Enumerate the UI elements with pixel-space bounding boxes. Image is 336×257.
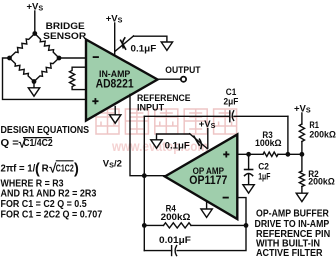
svg-text:+VS: +VS	[199, 119, 216, 130]
svg-text:2πf = 1/: 2πf = 1/	[1, 163, 36, 174]
svg-text:): )	[74, 161, 79, 177]
resistor bridge bottom-right arm	[34, 58, 59, 82]
svg-text:ACTIVE FILTER: ACTIVE FILTER	[256, 248, 323, 257]
capacitor C2 1uF	[248, 154, 250, 169]
svg-text:2μF: 2μF	[224, 96, 239, 106]
node op-amp plus input	[246, 152, 251, 157]
svg-text:Q =: Q =	[1, 138, 20, 149]
op-amp U1 in-amp AD8221	[86, 40, 158, 121]
svg-text:AD8221: AD8221	[96, 76, 134, 90]
svg-text:0.1μF: 0.1μF	[131, 43, 157, 53]
svg-text:C1/4C2: C1/4C2	[23, 138, 53, 149]
svg-text:OP1177: OP1177	[189, 173, 227, 187]
pin plus mark in-amp	[93, 100, 97, 102]
ground 0.1uF op-amp	[151, 140, 162, 148]
node ref junction	[142, 173, 147, 178]
resistor RG gain	[70, 67, 87, 89]
node C1 right	[286, 152, 291, 157]
ground bridge	[33, 82, 35, 88]
capacitor 0.01uF feedback	[171, 246, 173, 256]
ground C2	[243, 185, 254, 193]
svg-text:+VS: +VS	[27, 2, 44, 13]
svg-text:R: R	[42, 163, 49, 174]
svg-text:OUTPUT: OUTPUT	[165, 65, 200, 76]
svg-text:200kΩ: 200kΩ	[308, 176, 335, 187]
node bridge bottom	[32, 79, 37, 84]
wire bridge +Vs supply	[34, 11, 36, 34]
capacitor 0.1uF in-amp bypass	[115, 36, 167, 51]
wire op-amp +Vs supply	[207, 129, 209, 149]
resistor bridge top-left arm	[10, 34, 35, 59]
capacitor C1 2uF	[229, 111, 231, 122]
svg-text:+VS: +VS	[294, 103, 311, 114]
resistor R1 200k	[299, 124, 304, 142]
svg-text:FOR C1 = 2C2 Q = 0.707: FOR C1 = 2C2 Q = 0.707	[1, 209, 103, 220]
svg-text:FOR C1 = C2 Q = 0.5: FOR C1 = C2 Q = 0.5	[1, 199, 87, 210]
ground op-amp supply	[206, 201, 208, 209]
node output terminal	[181, 77, 186, 82]
svg-text:200kΩ: 200kΩ	[161, 212, 191, 223]
wire C1 branch vertical	[143, 116, 145, 250]
svg-text:1μF: 1μF	[258, 171, 270, 182]
svg-text:DESIGN EQUATIONS: DESIGN EQUATIONS	[1, 125, 90, 136]
node R4 right	[244, 223, 249, 228]
wire bridge right node to minus input	[59, 57, 86, 59]
pin plus mark op-amp	[224, 153, 228, 155]
ground 0.1uF in-amp	[161, 42, 172, 50]
text design equations	[1, 125, 103, 220]
svg-text:200kΩ: 200kΩ	[309, 130, 336, 141]
wire in-amp +Vs supply	[114, 23, 116, 55]
node R1 R2 junction	[300, 152, 305, 157]
wire R1 +Vs	[301, 113, 303, 124]
wire output	[158, 78, 181, 80]
wire C1 top horizontal	[144, 115, 230, 117]
svg-text:AND R1 AND R2 = 2R3: AND R1 AND R2 = 2R3	[1, 189, 97, 200]
wire plus input to divider	[237, 153, 263, 155]
svg-text:C1C2: C1C2	[56, 163, 74, 174]
capacitor 0.1uF op-amp bypass	[157, 134, 208, 149]
node R4 left	[142, 223, 147, 228]
resistor bridge bottom-left arm	[10, 58, 35, 82]
svg-text:0.01μF: 0.01μF	[159, 235, 191, 246]
svg-text:0.1μF: 0.1μF	[165, 141, 191, 151]
svg-text:VS/2: VS/2	[103, 158, 122, 169]
wire reference input net	[130, 95, 165, 176]
resistor R2 200k	[301, 154, 303, 171]
pin minus mark op-amp	[224, 197, 228, 199]
op-amp U2 OP1177	[165, 135, 237, 220]
watermark chinese characters	[96, 109, 237, 134]
svg-text:+VS: +VS	[106, 13, 123, 24]
node bridge top	[32, 31, 37, 36]
resistor bridge top-right arm	[35, 34, 59, 59]
resistor R4 200k	[144, 224, 163, 226]
svg-text:(: (	[35, 161, 40, 177]
pin minus mark in-amp	[94, 56, 98, 58]
svg-text:100kΩ: 100kΩ	[255, 138, 282, 149]
ground in-amp supply	[114, 107, 116, 115]
resistor R3 100k	[263, 152, 278, 156]
svg-text:SENSOR: SENSOR	[43, 31, 86, 42]
ground R2	[296, 193, 307, 201]
svg-text:INPUT: INPUT	[137, 102, 164, 113]
node bridge right	[57, 56, 62, 61]
text op-amp buffer note	[255, 209, 331, 257]
wire bridge left node to plus input	[3, 58, 87, 99]
node bridge left	[7, 56, 12, 61]
wire minus input feedback	[177, 198, 246, 251]
